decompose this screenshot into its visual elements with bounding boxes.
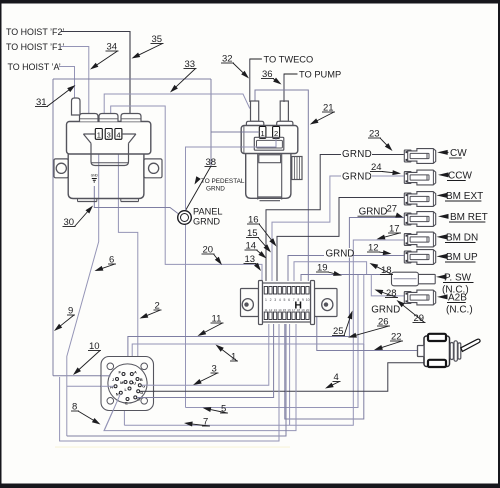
callout 16	[247, 215, 277, 247]
relay K1 trapezoid opening	[83, 134, 135, 143]
label GRND above BM UP wire	[325, 248, 355, 260]
svg-text:BM UP: BM UP	[446, 252, 478, 263]
svg-text:13: 13	[274, 308, 278, 312]
svg-text:J: J	[112, 377, 114, 382]
relay K2 right post	[277, 101, 293, 126]
callout 12	[367, 243, 392, 256]
relay K1 lower body	[68, 154, 144, 199]
svg-text:TO PUMP: TO PUMP	[299, 70, 341, 80]
wire 8 connector pin E diagonal to bottom row	[104, 324, 296, 431]
wire 3 connector pin G to block pin	[140, 324, 269, 385]
wire F2 from label to relay K1 tab3	[61, 32, 130, 115]
terminal CCW	[404, 170, 435, 185]
relay K1 inner window	[91, 143, 129, 165]
relay K2 terminal box 2	[273, 127, 280, 139]
circular connector barrel circle	[108, 364, 147, 403]
callout 9	[54, 306, 75, 332]
svg-text:B: B	[140, 377, 143, 382]
wire 27 BM RET to wire 11 junction	[349, 218, 403, 337]
callout 35	[132, 34, 164, 59]
relay K1 left mounting ear	[54, 159, 68, 178]
svg-text:CW: CW	[450, 148, 467, 159]
panel ground lug ring	[178, 211, 192, 225]
label A2B (N.C.)	[437, 293, 473, 316]
wire flange right drop	[124, 324, 289, 425]
label TO HOIST A	[8, 62, 61, 72]
svg-text:5: 5	[284, 298, 286, 302]
wire overlay pin J	[101, 375, 111, 377]
wire relay K1 ground stub to panel ground lug	[94, 186, 178, 214]
callout 31	[35, 85, 76, 108]
toggle switch bushing rings	[450, 341, 461, 361]
relay K1 terminal box 3	[105, 129, 112, 140]
terminal block body	[263, 283, 311, 322]
svg-text:H: H	[294, 300, 302, 312]
svg-text:4: 4	[116, 130, 120, 139]
label CW	[437, 148, 467, 159]
wire bottom loop pin A tee to block	[285, 324, 364, 419]
toggle switch bat lever	[461, 339, 480, 351]
terminal CW	[404, 149, 435, 164]
svg-text:2: 2	[270, 298, 272, 302]
wire 1 connector pin A to P.SW tee riser	[132, 275, 364, 358]
wire overlay pin H	[101, 385, 114, 387]
label TO TWECO	[250, 55, 313, 65]
wire connector pin C to block pin	[135, 324, 273, 398]
svg-text:BM RET: BM RET	[450, 212, 488, 223]
wire relay K2 terminal 2 long drop	[186, 139, 277, 408]
svg-text:6: 6	[288, 298, 290, 302]
wire 19 block pin 8 to P.SW terminal	[301, 275, 392, 282]
wire 17 BM DN loop down to bottom row	[124, 240, 403, 425]
terminal block right wing	[315, 289, 338, 317]
label TO HOIST F2	[6, 27, 64, 37]
terminal block left end plate	[259, 281, 263, 325]
terminal A2B	[404, 290, 435, 305]
ground bus from node at (53,79) to pedestal ground drop	[53, 79, 211, 166]
label CCW	[438, 171, 472, 182]
terminal block top pin row	[264, 287, 309, 295]
callout 25	[332, 311, 353, 338]
toggle switch body	[424, 336, 450, 367]
wire overlay pin D	[140, 390, 155, 392]
callout 33	[170, 59, 197, 93]
relay K1 upper body with tabs	[67, 114, 151, 155]
svg-text:TO HOIST ’A’: TO HOIST ’A’	[8, 62, 61, 72]
label TO PEDESTAL GRND	[201, 178, 245, 193]
svg-text:1: 1	[97, 130, 101, 139]
label PANEL GRND	[193, 207, 222, 227]
label BM DN	[437, 233, 479, 244]
relay K2 upper body	[241, 126, 298, 154]
relay K1 terminal box 4	[115, 129, 122, 140]
wire 33 relay K1 tab2 to relay K2 left post	[104, 94, 250, 115]
label TO PUMP	[284, 70, 341, 80]
terminal BM UP	[404, 250, 435, 265]
relay K2 terminal box 1	[259, 127, 266, 139]
svg-text:G: G	[142, 384, 145, 389]
callout 19	[316, 263, 342, 276]
wire 13 relay K1 tab2 down to block pin 1 area	[111, 106, 262, 281]
svg-text:4: 4	[279, 298, 281, 302]
callout 20	[202, 245, 223, 266]
svg-text:(N.C.): (N.C.)	[446, 304, 473, 315]
svg-text:16: 16	[287, 308, 291, 312]
wire 38 pedestal ground diagonal to panel ground lug	[186, 166, 212, 211]
wire F1 from label to relay K1 tab1	[61, 47, 89, 115]
svg-text:1: 1	[261, 129, 265, 138]
callout 13	[244, 254, 262, 271]
svg-text:9: 9	[302, 298, 304, 302]
callout 6	[95, 255, 117, 272]
callout 8	[71, 402, 101, 425]
svg-text:3: 3	[274, 298, 276, 302]
wire 10 panel-ground-bus to connector pin J	[53, 375, 108, 377]
label GRND for CW	[342, 149, 372, 160]
svg-text:TO PEDESTAL: TO PEDESTAL	[201, 178, 245, 185]
relay K2 inner cylinder	[258, 154, 282, 201]
terminal block bottom pin row	[264, 312, 309, 320]
callout 21	[310, 103, 335, 125]
terminal BM EXT	[404, 192, 435, 207]
wire 29 branch to A2B terminal	[371, 275, 404, 296]
wire overlay pin C	[137, 397, 155, 399]
wire 11 pin F to BM RET loop riser	[128, 337, 350, 358]
callout 11	[198, 314, 224, 337]
callout 15	[246, 228, 271, 253]
wire 12 block pin 6 to BM UP terminal	[288, 256, 404, 282]
label BM EXT	[437, 191, 484, 202]
callout 1	[216, 345, 239, 363]
wire overlay to relay K2 terminal 2	[241, 139, 276, 148]
label BM RET	[438, 212, 488, 223]
wire A from label to relay K1 post	[59, 67, 75, 100]
wire 2 relay K1 terminal 4 down to connector pin B	[118, 140, 137, 358]
toggle switch left terminal	[418, 346, 425, 357]
ground bus left drop x=53	[52, 79, 54, 376]
svg-text:PANEL: PANEL	[193, 207, 222, 217]
svg-text:GRND: GRND	[342, 149, 372, 160]
svg-text:TO TWECO: TO TWECO	[264, 55, 314, 65]
callout 36	[261, 69, 282, 85]
wire 24 block pin 3 to CCW terminal	[272, 176, 404, 281]
callout 5	[203, 404, 229, 415]
callout 3	[193, 364, 219, 386]
callout 2	[140, 301, 162, 319]
toggle switch bottom tab	[428, 360, 446, 367]
svg-text:10: 10	[306, 298, 310, 302]
svg-text:U: U	[133, 381, 136, 386]
wire 4 connector pin D to toggle switch lower	[138, 363, 424, 392]
svg-text:GRND: GRND	[326, 249, 355, 260]
toggle switch top tab	[428, 334, 446, 341]
svg-text:12: 12	[269, 308, 273, 312]
wire 18 block pin 7 to P.SW jog	[294, 262, 367, 281]
relay K2 lower body	[246, 154, 291, 199]
svg-text:D: D	[140, 390, 143, 395]
wire TO TWECO drop to relay K2 left post	[250, 59, 262, 102]
callout 10	[73, 341, 101, 375]
svg-text:GRND: GRND	[342, 172, 372, 183]
terminal block right end plate	[311, 281, 315, 325]
svg-text:CCW: CCW	[448, 171, 472, 182]
terminal block left wing	[241, 289, 259, 317]
callout 14	[245, 241, 267, 259]
callout 26	[348, 317, 390, 338]
svg-text:27: 27	[387, 204, 398, 215]
wire loop over relay K2 into block pin 10	[255, 90, 308, 281]
label TO HOIST F1	[6, 42, 64, 52]
callout 28	[375, 288, 399, 299]
callout 29	[397, 300, 426, 324]
terminal BM RET	[404, 212, 435, 227]
circular connector flange	[101, 357, 154, 411]
svg-text:15: 15	[283, 308, 287, 312]
terminal P.SW bullet	[392, 272, 436, 286]
wire overlay to relay K2 terminal 1	[241, 131, 259, 133]
relay K2 left post	[246, 101, 263, 126]
wire block pin 4 to BM EXT terminal	[277, 198, 404, 282]
label GRND for CCW	[342, 172, 372, 183]
callout 24	[370, 162, 401, 175]
wire 22 block wing to toggle switch upper	[317, 317, 424, 351]
callout 17	[377, 224, 402, 240]
svg-text:14: 14	[278, 308, 282, 312]
wire 5 bottom run to P.SW tee	[186, 275, 359, 408]
svg-text:20: 20	[306, 308, 310, 312]
relay K1 bottom feet	[78, 199, 139, 202]
svg-text:2: 2	[274, 129, 278, 138]
callout 34	[90, 42, 119, 70]
callout 4	[325, 372, 341, 389]
wire bottom row 2	[60, 324, 279, 441]
svg-text:H: H	[110, 385, 113, 390]
terminal block bottom numbers	[264, 308, 309, 312]
svg-text:11: 11	[264, 308, 267, 312]
svg-text:TO HOIST ’F2’: TO HOIST ’F2’	[6, 27, 64, 37]
svg-text:1: 1	[265, 298, 267, 302]
svg-text:M: M	[120, 380, 123, 385]
wire overlay pin G	[142, 384, 155, 386]
svg-text:3: 3	[107, 130, 111, 139]
relay K2 right tab	[292, 157, 302, 180]
label GRND for A2B	[371, 305, 400, 316]
svg-text:TO HOIST ’F1’: TO HOIST ’F1’	[6, 42, 64, 52]
svg-text:P. SW: P. SW	[444, 273, 472, 284]
circular connector pins with letters	[110, 369, 145, 405]
callout 23	[368, 129, 393, 152]
svg-text:BM DN: BM DN	[446, 233, 478, 244]
terminal block H marking	[294, 300, 302, 312]
label P. SW (N.C.)	[436, 273, 474, 296]
circular connector corner holes	[107, 363, 148, 404]
callout 32	[221, 54, 249, 79]
label BM UP	[437, 252, 479, 263]
wire 6 relay K1 terminal 1 diagonal to connector pin H	[67, 140, 99, 437]
wire bottom row to pin H riser	[67, 324, 286, 436]
wire branch ground to relay K2 terminal 1	[211, 131, 260, 133]
svg-text:N: N	[116, 392, 119, 397]
svg-text:A: A	[134, 369, 137, 374]
terminal block top numbers	[265, 298, 310, 302]
callout 18	[370, 263, 394, 276]
wire connector pin H stub	[67, 385, 116, 387]
label GRND 27 for BM RET	[358, 204, 404, 218]
svg-text:E: E	[125, 401, 128, 406]
callout 22	[374, 332, 403, 351]
svg-text:GRND: GRND	[206, 186, 225, 193]
callout 38	[205, 157, 217, 168]
relay K1 terminal box 1	[95, 129, 102, 140]
terminal BM DN	[404, 232, 435, 247]
relay K2 bracket	[254, 137, 283, 150]
svg-text:GRND: GRND	[193, 217, 220, 227]
svg-text:A2B: A2B	[448, 293, 467, 304]
relay K1 ground mark	[91, 174, 99, 183]
svg-text:GRND: GRND	[371, 305, 400, 316]
wire TO PUMP drop to relay K2 right post	[284, 74, 298, 102]
wire overlay pin E diagonal	[105, 394, 121, 429]
relay K1 right mounting ear	[144, 159, 162, 178]
callout 7	[184, 417, 210, 428]
callout 30	[63, 206, 94, 229]
svg-text:GND: GND	[91, 174, 99, 178]
svg-text:BM EXT: BM EXT	[446, 191, 483, 202]
relay K1 post cylinder	[72, 98, 81, 115]
wire 23 block pin 2 to CW terminal	[266, 155, 404, 282]
